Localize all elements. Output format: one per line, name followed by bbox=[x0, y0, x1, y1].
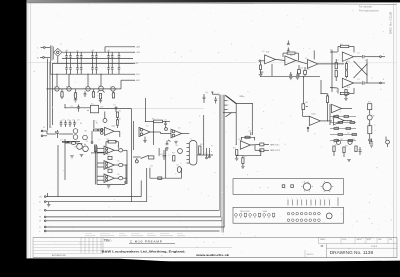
svg-text:C45: C45 bbox=[176, 165, 179, 167]
svg-text:F1: F1 bbox=[211, 146, 213, 148]
svg-text:10k: 10k bbox=[117, 174, 120, 176]
svg-text:R81: R81 bbox=[326, 94, 329, 96]
svg-text:R55: R55 bbox=[246, 135, 249, 137]
svg-text:IC3: IC3 bbox=[178, 128, 181, 130]
svg-text:L: L bbox=[38, 48, 39, 50]
svg-text:1 OF 8: 1 OF 8 bbox=[371, 246, 377, 248]
svg-text:C31: C31 bbox=[164, 120, 167, 122]
svg-text:DRG. No. C1138: DRG. No. C1138 bbox=[389, 12, 393, 34]
svg-text:TR7: TR7 bbox=[372, 116, 375, 118]
svg-text:SW1a: SW1a bbox=[240, 96, 245, 98]
svg-text:R21: R21 bbox=[107, 139, 110, 141]
svg-text:C40: C40 bbox=[166, 141, 169, 143]
svg-text:E: E bbox=[40, 202, 41, 204]
svg-text:100n: 100n bbox=[100, 107, 104, 109]
svg-text:TR5: TR5 bbox=[175, 145, 178, 147]
svg-text:1k: 1k bbox=[60, 95, 62, 97]
svg-text:C61: C61 bbox=[287, 49, 290, 51]
svg-text:IC5: IC5 bbox=[305, 58, 308, 60]
svg-text:C4: C4 bbox=[93, 66, 95, 68]
svg-text:B&W ELECTRONICS: B&W ELECTRONICS bbox=[361, 237, 375, 239]
svg-text:For manuals: For manuals bbox=[359, 5, 373, 8]
svg-text:C15: C15 bbox=[67, 120, 70, 122]
svg-text:C9: C9 bbox=[108, 50, 110, 52]
svg-text:C44: C44 bbox=[150, 166, 153, 168]
svg-text:10k: 10k bbox=[117, 161, 120, 163]
svg-text:R25: R25 bbox=[107, 167, 110, 169]
svg-text:IC6a: IC6a bbox=[112, 125, 116, 127]
svg-text:RG1: RG1 bbox=[54, 87, 57, 89]
svg-text:RL1: RL1 bbox=[91, 104, 94, 106]
svg-text:RG3: RG3 bbox=[110, 87, 113, 89]
svg-text:C12: C12 bbox=[113, 105, 116, 107]
svg-text:1k: 1k bbox=[91, 94, 93, 96]
svg-text:SIZE: SIZE bbox=[389, 239, 392, 241]
svg-text:2k2: 2k2 bbox=[73, 95, 76, 97]
svg-text:TAPE OUT L: TAPE OUT L bbox=[270, 143, 280, 146]
svg-text:SW2: SW2 bbox=[160, 154, 163, 156]
svg-text:DRAWING No. 1138: DRAWING No. 1138 bbox=[330, 250, 374, 256]
svg-text:C16: C16 bbox=[72, 120, 75, 122]
svg-text:IC4: IC4 bbox=[262, 51, 265, 53]
svg-text:2k2: 2k2 bbox=[347, 132, 350, 134]
svg-text:Title:-: Title:- bbox=[104, 239, 112, 243]
svg-text:R72: R72 bbox=[336, 60, 339, 62]
svg-text:+40V: +40V bbox=[136, 47, 141, 49]
svg-text:4k7: 4k7 bbox=[99, 95, 102, 97]
svg-text:R41: R41 bbox=[200, 144, 203, 146]
svg-text:R96: R96 bbox=[345, 145, 348, 147]
svg-text:IC2: IC2 bbox=[146, 126, 149, 128]
svg-text:1k: 1k bbox=[111, 95, 113, 97]
svg-text:C.M10 PREAMP: C.M10 PREAMP bbox=[130, 239, 163, 243]
svg-text:TR3: TR3 bbox=[84, 131, 87, 133]
svg-text:C1: C1 bbox=[50, 127, 52, 129]
svg-text:R71: R71 bbox=[330, 50, 333, 52]
svg-text:R92: R92 bbox=[368, 124, 371, 126]
svg-text:C11: C11 bbox=[70, 106, 73, 108]
svg-text:R95: R95 bbox=[335, 144, 338, 146]
svg-text:4k7: 4k7 bbox=[336, 114, 339, 116]
svg-text:R8: R8 bbox=[80, 123, 82, 125]
svg-text:D1: D1 bbox=[66, 50, 68, 52]
svg-text:RG2: RG2 bbox=[66, 87, 69, 89]
svg-text:T: T bbox=[40, 210, 41, 212]
svg-text:R5: R5 bbox=[119, 118, 121, 120]
svg-text:R73: R73 bbox=[347, 61, 350, 63]
svg-text:Z1: Z1 bbox=[85, 87, 87, 89]
svg-text:C8: C8 bbox=[92, 50, 94, 52]
svg-text:www.audiochs.sk: www.audiochs.sk bbox=[195, 253, 230, 257]
svg-text:R31: R31 bbox=[152, 119, 155, 121]
svg-text:R70: R70 bbox=[340, 44, 343, 46]
svg-text:TR9: TR9 bbox=[352, 139, 355, 141]
svg-text:+15: +15 bbox=[248, 131, 251, 133]
svg-text:4k7: 4k7 bbox=[336, 126, 339, 128]
svg-text:C20: C20 bbox=[60, 139, 63, 141]
svg-text:C71: C71 bbox=[357, 53, 360, 55]
svg-text:R56: R56 bbox=[233, 148, 236, 150]
svg-text:C2: C2 bbox=[66, 66, 68, 68]
svg-text:R6: R6 bbox=[70, 123, 72, 125]
svg-text:R24: R24 bbox=[107, 155, 110, 157]
svg-text:+15V: +15V bbox=[136, 52, 141, 54]
svg-text:PU: PU bbox=[43, 127, 45, 129]
svg-text:C51: C51 bbox=[217, 95, 220, 97]
svg-text:TAPE OUT R: TAPE OUT R bbox=[270, 149, 281, 152]
svg-text:TR8: TR8 bbox=[340, 139, 343, 141]
svg-text:T1: T1 bbox=[60, 44, 62, 46]
svg-text:1k: 1k bbox=[336, 138, 338, 140]
svg-text:ALTERATIONS: ALTERATIONS bbox=[52, 254, 66, 257]
svg-text:IC6: IC6 bbox=[238, 139, 241, 141]
svg-text:220n: 220n bbox=[300, 68, 304, 70]
svg-text:2k2: 2k2 bbox=[346, 120, 349, 122]
svg-text:VR1: VR1 bbox=[305, 102, 308, 104]
svg-text:IC9: IC9 bbox=[332, 118, 335, 120]
svg-text:B&W Loudspeakers Ltd.,Worthing: B&W Loudspeakers Ltd.,Worthing, England. bbox=[102, 250, 186, 254]
svg-text:+24V: +24V bbox=[204, 153, 208, 155]
svg-text:Free legit purposes: Free legit purposes bbox=[359, 10, 380, 13]
svg-text:C14: C14 bbox=[62, 120, 65, 122]
svg-text:R4: R4 bbox=[119, 111, 121, 113]
svg-text:R9: R9 bbox=[96, 123, 98, 125]
svg-text:TR1: TR1 bbox=[98, 86, 101, 88]
svg-text:10k: 10k bbox=[117, 146, 120, 148]
svg-text:IC10: IC10 bbox=[312, 114, 316, 116]
svg-text:C72: C72 bbox=[357, 79, 360, 81]
svg-text:R44: R44 bbox=[172, 153, 175, 155]
svg-text:L: L bbox=[40, 231, 41, 233]
svg-text:R76: R76 bbox=[347, 87, 350, 89]
svg-text:D3: D3 bbox=[86, 141, 88, 143]
svg-text:15037 4: 15037 4 bbox=[307, 254, 314, 256]
svg-text:R91: R91 bbox=[368, 102, 371, 104]
svg-text:IC8: IC8 bbox=[330, 106, 333, 108]
svg-text:C3: C3 bbox=[77, 66, 79, 68]
svg-text:C5: C5 bbox=[109, 66, 111, 68]
svg-text:TUNER: TUNER bbox=[262, 211, 268, 213]
svg-text:220n: 220n bbox=[306, 69, 310, 71]
svg-text:R57: R57 bbox=[244, 156, 247, 158]
svg-text:IC4: IC4 bbox=[266, 52, 269, 54]
svg-text:V1: V1 bbox=[190, 139, 192, 141]
svg-text:ISSUE: ISSUE bbox=[342, 239, 346, 241]
svg-text:TR4: TR4 bbox=[74, 147, 77, 149]
svg-text:R75: R75 bbox=[336, 91, 339, 93]
